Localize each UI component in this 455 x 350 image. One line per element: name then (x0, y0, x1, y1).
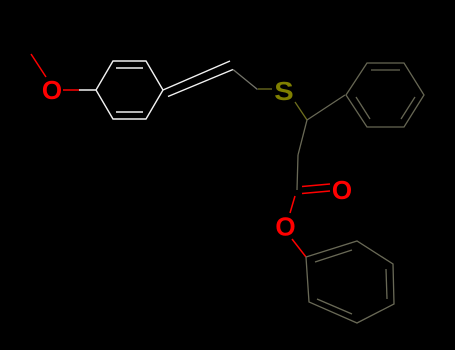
bottom ring aromatic inner top-left (315, 250, 352, 262)
vinyl chain double bond companion line (168, 70, 233, 97)
ring1 aromatic inner line bottom (116, 111, 143, 113)
svg-text:O: O (275, 212, 295, 242)
bottom ring aromatic inner right (386, 269, 387, 299)
ring2 aromatic inner bottom-right (401, 97, 415, 119)
chain connector bond to S junction (233, 70, 258, 90)
bottom ring aromatic inner bottom-left (317, 299, 352, 314)
bond C to S horizontal (olive) (258, 88, 272, 90)
svg-text:O: O (332, 175, 352, 205)
methyl bond CH3-O1 (31, 54, 46, 77)
ring1 aromatic inner line top (116, 67, 143, 69)
bond S to C* (295, 102, 307, 120)
bond carbonyl C to O3 (290, 196, 295, 213)
bond C* to ring2 (307, 95, 345, 120)
bond O1 to ring1 white half (79, 89, 96, 91)
svg-text:S: S (274, 76, 293, 105)
vinyl chain double bond main line (163, 61, 230, 90)
bond O1 to ring1 red half (63, 89, 79, 91)
ring2 aromatic inner bottom-left (356, 97, 370, 119)
benzene ring 1 outline (96, 61, 163, 119)
svg-text:O: O (42, 75, 62, 105)
bond CH2 to carbonyl C (297, 155, 298, 190)
bottom benzene ring outline (306, 241, 394, 323)
benzene ring 2 outline (346, 63, 424, 127)
carbonyl C=O double line lower (302, 191, 330, 194)
bond O3 to bottom ring (292, 239, 306, 257)
carbonyl C=O double line upper (302, 184, 330, 187)
ring2 aromatic inner top (371, 69, 400, 71)
bond C* down to CH2 (298, 120, 307, 155)
